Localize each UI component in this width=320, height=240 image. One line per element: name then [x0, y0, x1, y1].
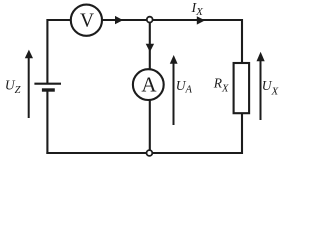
- wire bottom rail: [46, 152, 243, 154]
- node junction bottom: [147, 150, 153, 156]
- battery source U_Z short plate: [42, 88, 55, 91]
- wire left rail (lower segment): [46, 90, 48, 154]
- svg-text:UZ: UZ: [5, 78, 21, 97]
- label U_A: [176, 78, 193, 96]
- wire left rail (upper segment, U_Z source branch): [46, 19, 48, 84]
- voltmeter V: [71, 5, 102, 36]
- label R_X: [213, 76, 229, 95]
- ammeter A: [133, 69, 164, 100]
- svg-text:RX: RX: [213, 76, 229, 95]
- node junction top: [147, 17, 153, 23]
- svg-text:UA: UA: [176, 78, 193, 96]
- wire right rail (upper segment): [241, 19, 243, 64]
- voltage arrow U_Z: [25, 50, 33, 118]
- wire middle branch: [149, 20, 151, 153]
- resistor R_X: [234, 63, 250, 113]
- voltage arrow U_X: [257, 52, 265, 120]
- current arrowhead I_X on top rail: [197, 16, 205, 24]
- current arrowhead after voltmeter: [115, 16, 123, 24]
- wire top rail: [47, 19, 242, 21]
- svg-text:V: V: [80, 11, 94, 32]
- svg-text:IX: IX: [191, 1, 205, 18]
- svg-text:A: A: [141, 72, 157, 96]
- voltage arrow U_A: [170, 55, 178, 125]
- label U_Z: [5, 78, 21, 97]
- label U_X: [262, 78, 280, 97]
- label I_X: [191, 1, 205, 18]
- current arrowhead down into ammeter branch: [146, 44, 154, 52]
- wire right rail (lower segment): [241, 112, 243, 154]
- battery source U_Z long plate: [34, 83, 61, 85]
- svg-text:UX: UX: [262, 78, 280, 97]
